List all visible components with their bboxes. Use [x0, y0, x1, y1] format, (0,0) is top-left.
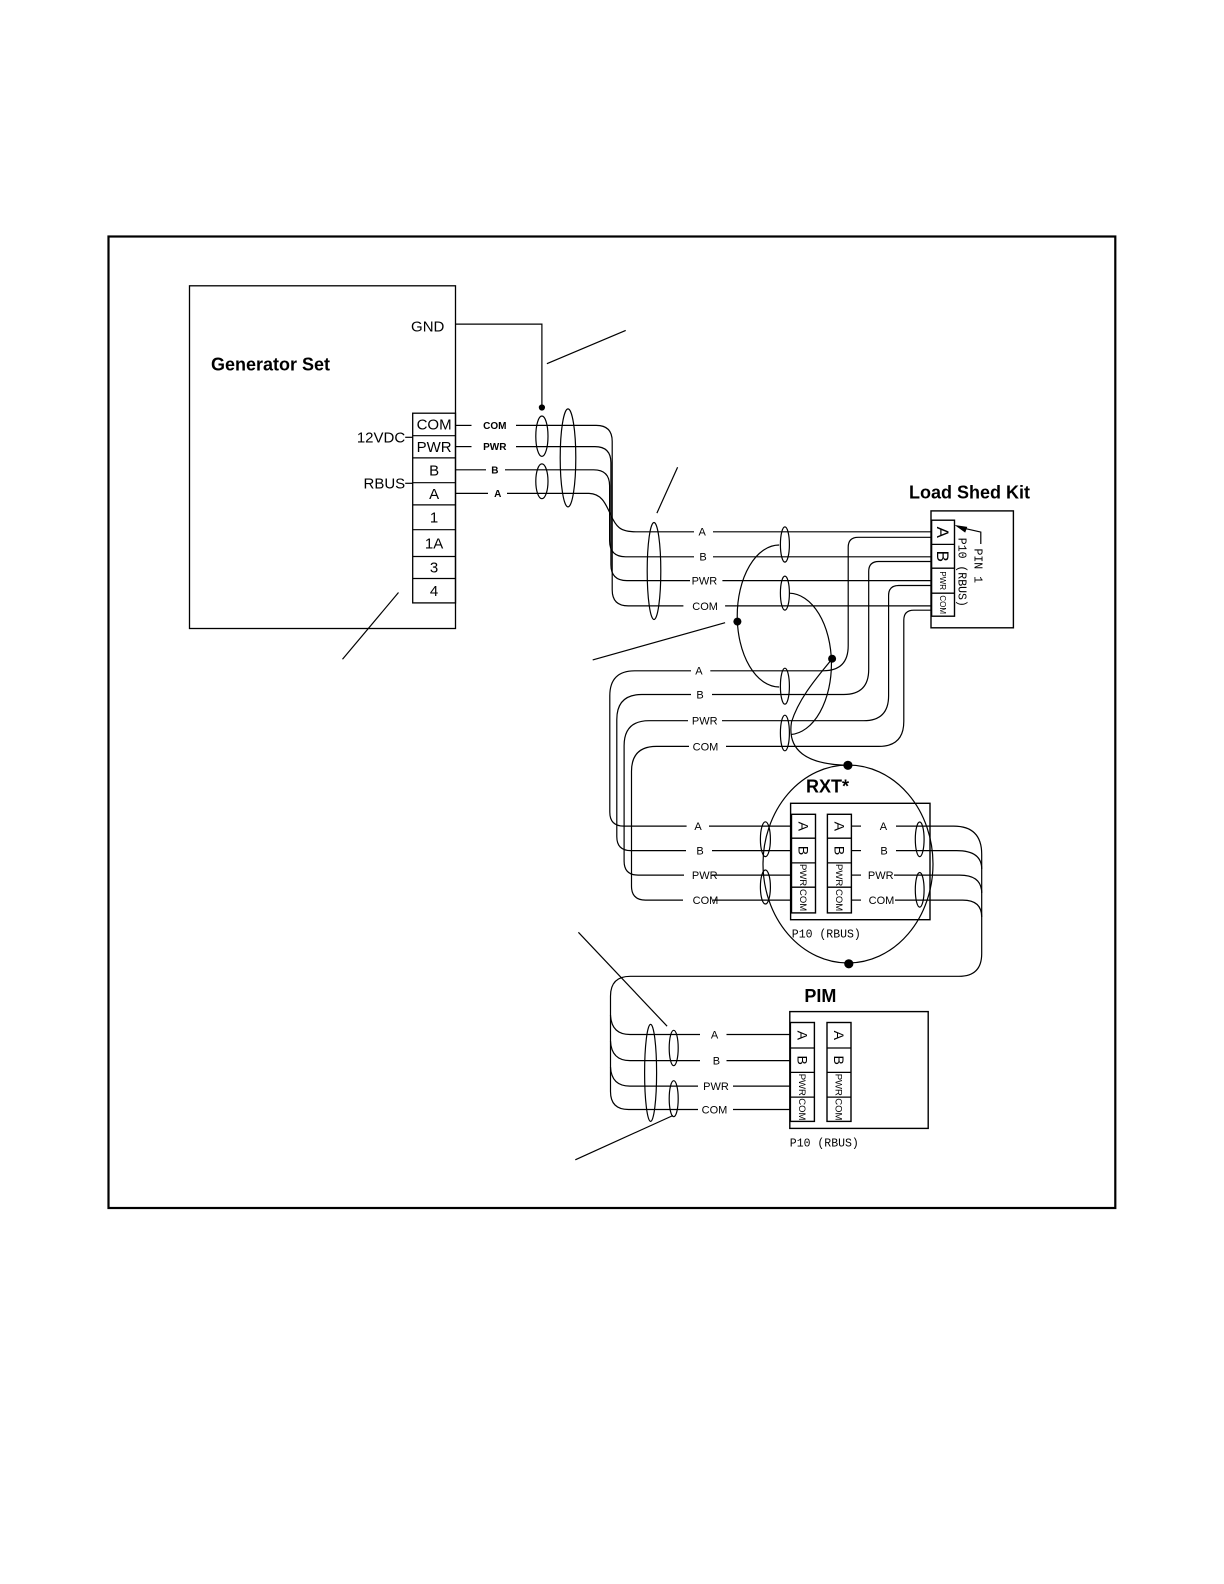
svg-text:PWR: PWR [868, 870, 894, 882]
svg-text:COM: COM [797, 889, 808, 911]
svg-text:COM: COM [869, 895, 895, 907]
svg-text:B: B [831, 1056, 847, 1065]
svg-text:A: A [933, 527, 952, 539]
svg-text:COM: COM [833, 1098, 844, 1120]
svg-text:PIN 1: PIN 1 [971, 549, 984, 584]
svg-text:A: A [711, 1029, 719, 1041]
svg-text:B: B [794, 1056, 810, 1065]
svg-text:1A: 1A [425, 535, 443, 552]
svg-text:P10 (RBUS): P10 (RBUS) [955, 538, 968, 607]
svg-text:PIM: PIM [804, 986, 836, 1006]
svg-text:A: A [795, 822, 811, 832]
svg-text:B: B [713, 1056, 720, 1068]
svg-text:COM: COM [702, 1104, 728, 1116]
svg-text:B: B [429, 463, 439, 480]
svg-text:GND: GND [411, 318, 445, 335]
svg-text:P10 (RBUS): P10 (RBUS) [792, 929, 861, 942]
svg-text:B: B [696, 846, 703, 858]
svg-text:PWR: PWR [692, 870, 718, 882]
svg-text:COM: COM [692, 601, 718, 613]
svg-text:COM: COM [417, 417, 452, 434]
svg-text:COM: COM [796, 1098, 807, 1120]
svg-text:PWR: PWR [833, 1074, 844, 1096]
svg-text:Load Shed Kit: Load Shed Kit [909, 483, 1030, 503]
svg-text:B: B [696, 689, 703, 701]
svg-text:A: A [494, 489, 501, 500]
svg-text:3: 3 [430, 560, 438, 577]
svg-text:COM: COM [938, 595, 947, 614]
svg-text:COM: COM [483, 421, 506, 432]
svg-text:COM: COM [693, 741, 719, 753]
svg-text:PWR: PWR [796, 1074, 807, 1096]
svg-text:A: A [429, 486, 439, 503]
svg-text:A: A [695, 666, 703, 678]
svg-text:B: B [699, 552, 706, 564]
svg-text:B: B [795, 846, 811, 855]
svg-text:A: A [699, 527, 707, 539]
svg-text:12VDC: 12VDC [357, 429, 406, 446]
svg-text:PWR: PWR [797, 864, 808, 886]
svg-text:A: A [794, 1031, 810, 1041]
svg-text:A: A [694, 821, 702, 833]
svg-text:COM: COM [693, 895, 719, 907]
svg-text:Generator Set: Generator Set [211, 355, 330, 375]
svg-text:B: B [880, 846, 887, 858]
svg-text:PWR: PWR [833, 864, 844, 886]
svg-text:B: B [491, 465, 498, 476]
svg-text:PWR: PWR [483, 442, 507, 453]
svg-text:PWR: PWR [703, 1081, 729, 1093]
svg-text:B: B [933, 551, 952, 562]
svg-text:PWR: PWR [692, 576, 718, 588]
svg-text:B: B [831, 846, 847, 855]
svg-text:P10 (RBUS): P10 (RBUS) [790, 1138, 859, 1151]
svg-text:COM: COM [833, 889, 844, 911]
svg-text:A: A [831, 822, 847, 832]
svg-text:A: A [880, 821, 888, 833]
svg-text:1: 1 [430, 510, 438, 527]
svg-text:PWR: PWR [692, 716, 718, 728]
svg-text:RBUS: RBUS [364, 475, 406, 492]
svg-text:PWR: PWR [417, 439, 452, 456]
svg-text:A: A [831, 1031, 847, 1041]
svg-text:PWR: PWR [938, 571, 947, 590]
svg-text:RXT*: RXT* [806, 777, 849, 797]
svg-text:4: 4 [430, 583, 438, 600]
